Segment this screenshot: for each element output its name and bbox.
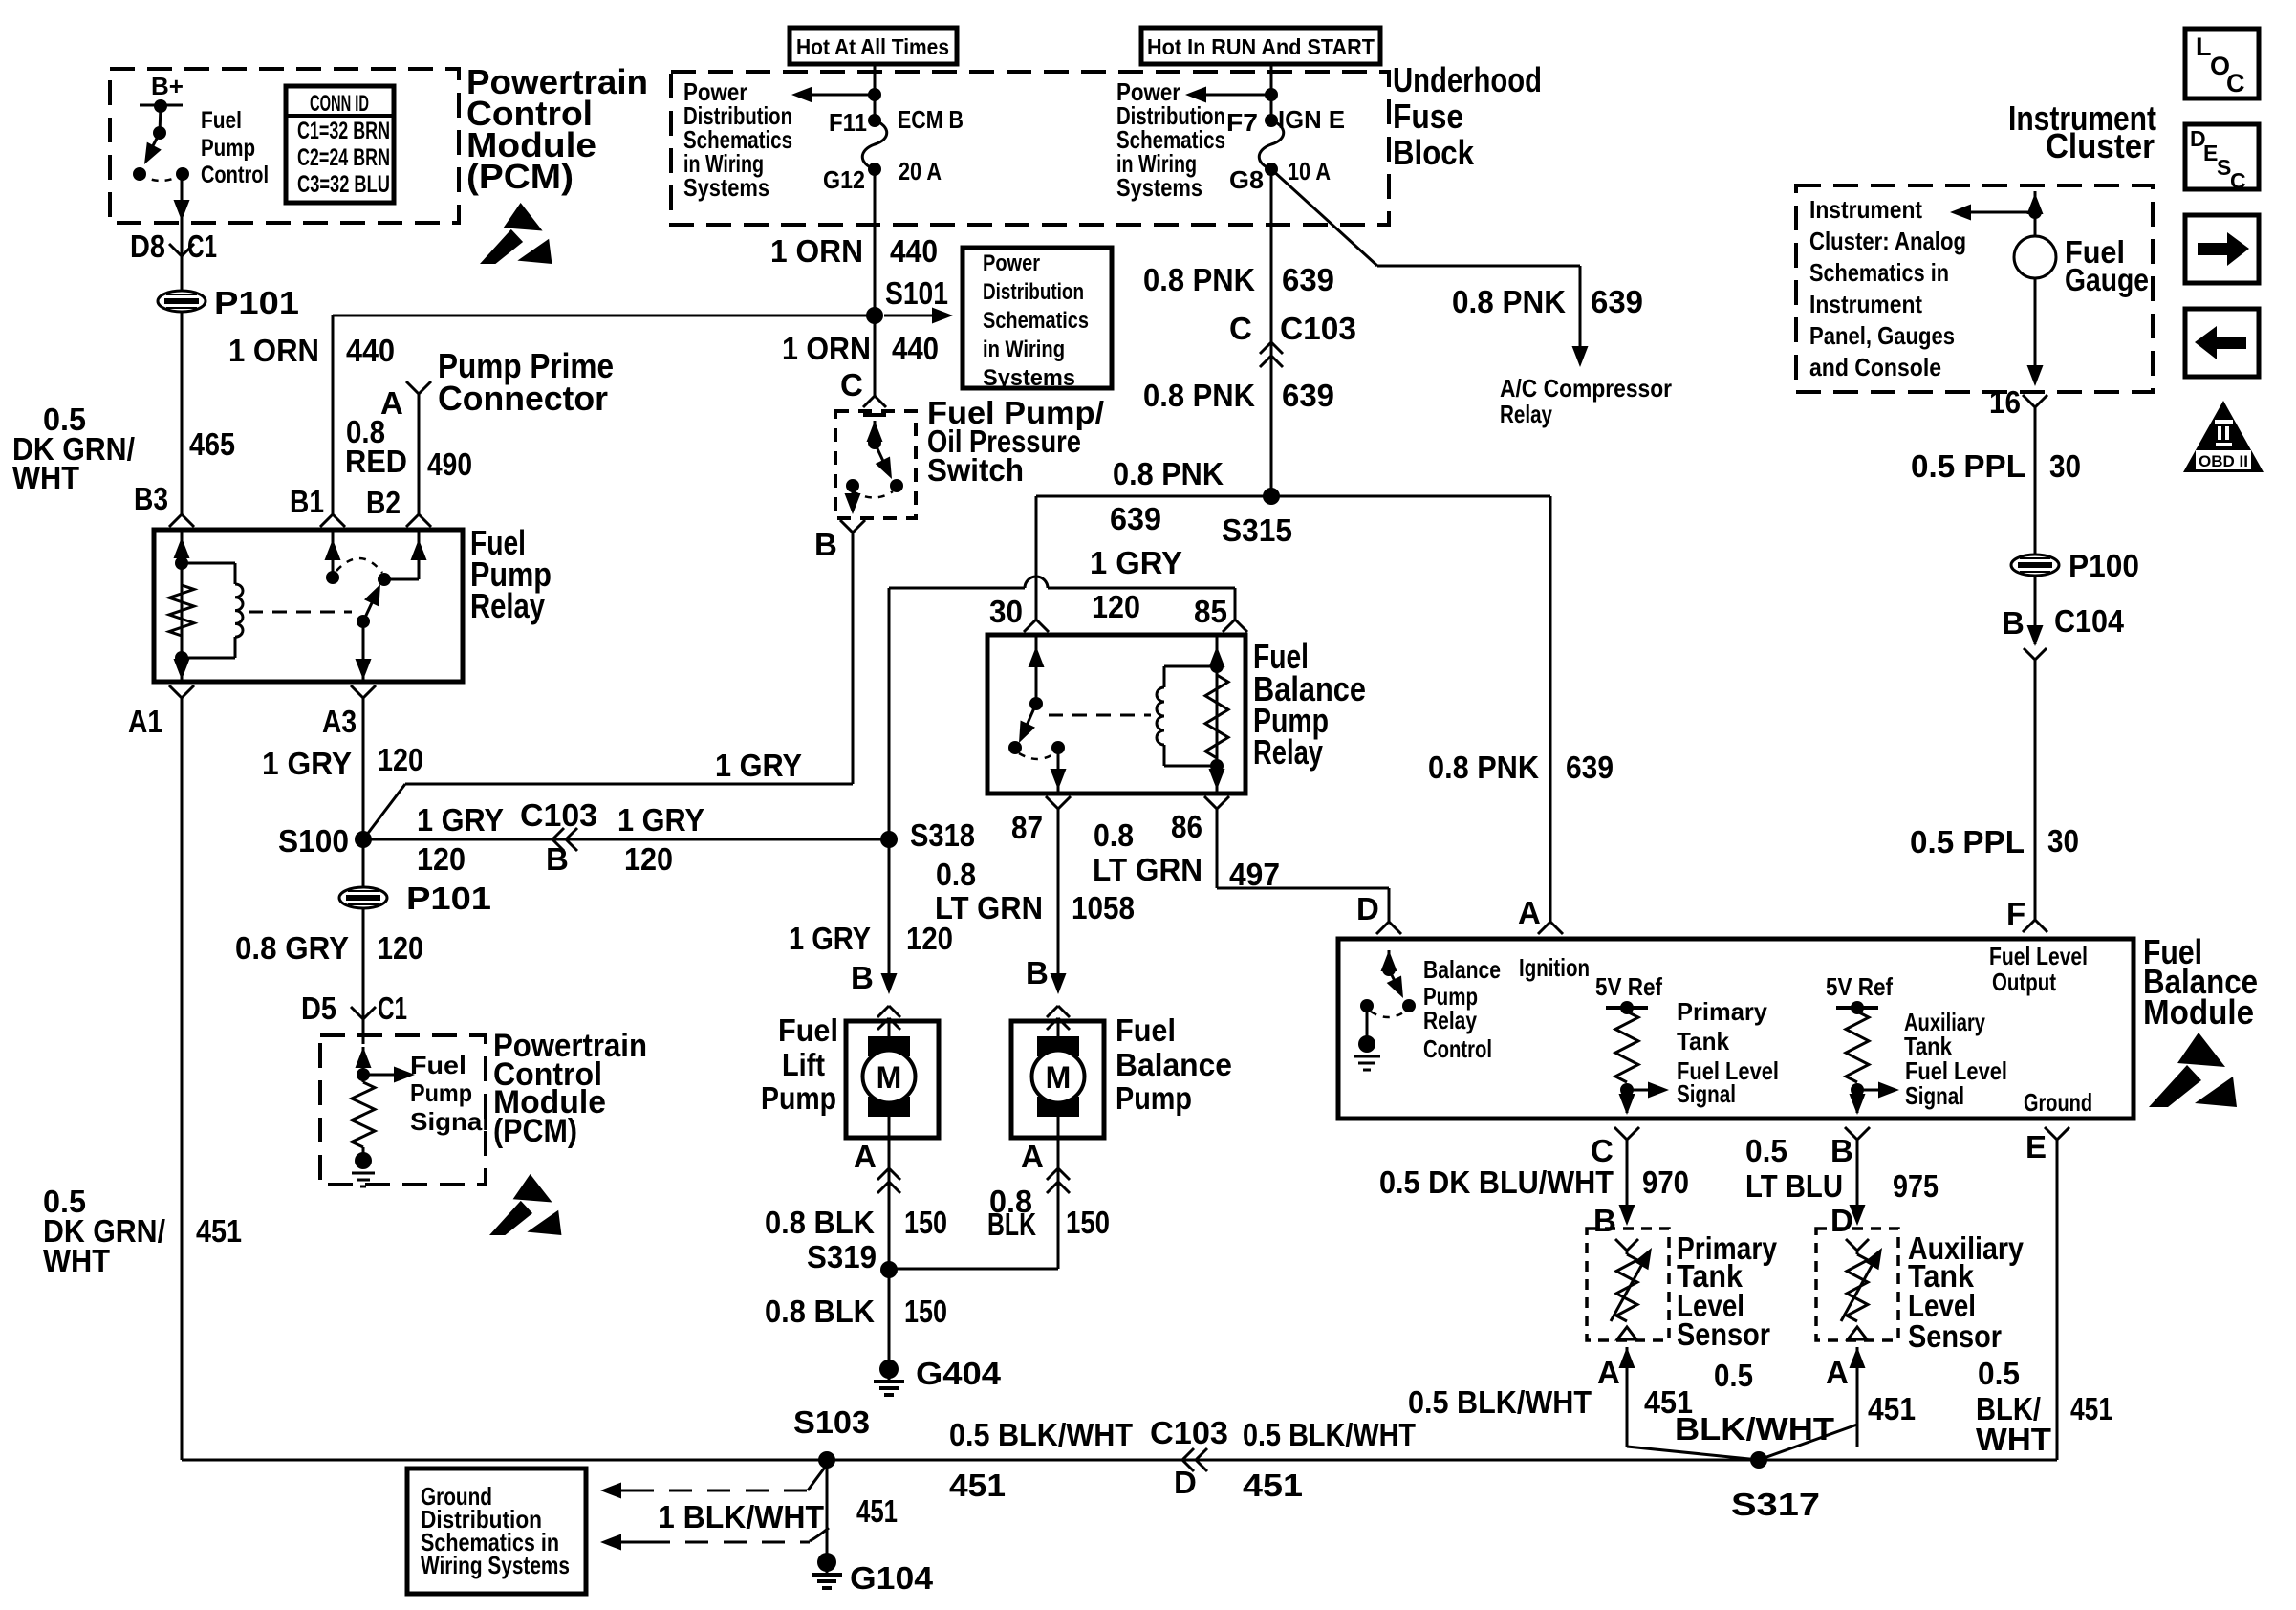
svg-text:0.5 DK BLU/WHT: 0.5 DK BLU/WHT	[1379, 1164, 1614, 1200]
svg-text:Output: Output	[1992, 968, 2056, 996]
svg-text:Fuel: Fuel	[1116, 1012, 1176, 1048]
svg-text:C: C	[2230, 168, 2246, 193]
svg-text:Distribution: Distribution	[983, 279, 1084, 305]
svg-text:A/C Compressor: A/C Compressor	[1500, 374, 1672, 402]
svg-text:WHT: WHT	[1976, 1422, 2051, 1457]
svg-text:BLK/WHT: BLK/WHT	[1675, 1411, 1834, 1447]
svg-text:5V Ref: 5V Ref	[1826, 972, 1893, 1001]
svg-text:120: 120	[378, 742, 423, 777]
svg-text:639: 639	[1566, 750, 1614, 785]
svg-text:16: 16	[1989, 384, 2021, 420]
svg-text:1 GRY: 1 GRY	[789, 921, 871, 956]
svg-text:0.5 PPL: 0.5 PPL	[1911, 448, 2025, 484]
svg-text:0.8 PNK: 0.8 PNK	[1143, 262, 1255, 297]
svg-text:B: B	[851, 960, 874, 995]
svg-text:Block: Block	[1393, 133, 1475, 172]
svg-text:A: A	[1021, 1139, 1044, 1174]
svg-text:451: 451	[949, 1468, 1006, 1503]
svg-text:Control: Control	[201, 162, 269, 188]
svg-text:0.5: 0.5	[1745, 1133, 1787, 1168]
svg-text:451: 451	[1868, 1391, 1916, 1426]
svg-text:451: 451	[856, 1493, 898, 1529]
svg-text:A: A	[854, 1139, 877, 1174]
svg-text:Panel, Gauges: Panel, Gauges	[1809, 321, 1955, 350]
svg-text:0.8: 0.8	[1094, 817, 1134, 853]
svg-text:B: B	[546, 841, 569, 877]
svg-text:465: 465	[189, 426, 235, 462]
svg-text:Pump: Pump	[201, 135, 255, 162]
svg-text:M: M	[1046, 1060, 1072, 1095]
svg-text:G12: G12	[823, 165, 865, 194]
svg-text:D5: D5	[301, 990, 336, 1026]
svg-text:Power: Power	[983, 250, 1040, 276]
svg-text:C1: C1	[187, 228, 217, 264]
svg-text:Balance: Balance	[1423, 955, 1501, 984]
svg-text:Instrument: Instrument	[1809, 290, 1922, 318]
svg-text:Balance: Balance	[1116, 1047, 1232, 1082]
svg-text:Cluster: Cluster	[2046, 126, 2155, 165]
svg-text:120: 120	[378, 930, 423, 966]
svg-text:1 GRY: 1 GRY	[617, 802, 704, 838]
svg-text:639: 639	[1282, 378, 1334, 413]
svg-text:86: 86	[1171, 809, 1202, 844]
svg-text:1058: 1058	[1072, 890, 1135, 925]
svg-text:Underhood: Underhood	[1393, 60, 1542, 99]
svg-text:(PCM): (PCM)	[466, 157, 574, 196]
svg-text:1 GRY: 1 GRY	[262, 746, 352, 781]
svg-text:C1=32 BRN: C1=32 BRN	[297, 118, 390, 144]
svg-text:Fuse: Fuse	[1393, 97, 1463, 136]
svg-text:0.8 BLK: 0.8 BLK	[765, 1294, 875, 1329]
svg-text:A3: A3	[322, 704, 357, 739]
svg-text:Signal: Signal	[410, 1107, 489, 1136]
svg-text:D: D	[1174, 1465, 1197, 1500]
svg-text:B2: B2	[366, 485, 401, 520]
svg-text:C103: C103	[1280, 311, 1356, 346]
svg-text:440: 440	[890, 233, 938, 269]
svg-text:in Wiring: in Wiring	[983, 337, 1065, 362]
svg-text:C104: C104	[2054, 603, 2125, 639]
svg-text:BLK: BLK	[987, 1207, 1036, 1242]
svg-text:0.8 PNK: 0.8 PNK	[1143, 378, 1255, 413]
svg-text:M: M	[877, 1060, 902, 1095]
svg-text:Fuel: Fuel	[778, 1012, 838, 1048]
svg-text:975: 975	[1893, 1168, 1939, 1204]
svg-text:B: B	[1830, 1133, 1853, 1168]
svg-text:Instrument: Instrument	[1809, 195, 1922, 224]
svg-text:D8: D8	[130, 228, 165, 264]
svg-text:F7: F7	[1226, 108, 1258, 137]
svg-text:Fuel Level: Fuel Level	[1989, 942, 2088, 970]
svg-text:Sensor: Sensor	[1908, 1318, 2002, 1354]
svg-text:S103: S103	[793, 1404, 870, 1440]
svg-text:1 GRY: 1 GRY	[715, 748, 802, 783]
svg-text:S101: S101	[885, 275, 948, 311]
svg-text:Gauge: Gauge	[2065, 262, 2149, 297]
svg-text:Hot At All Times: Hot At All Times	[796, 34, 949, 59]
svg-text:S315: S315	[1222, 512, 1292, 548]
svg-text:LT BLU: LT BLU	[1745, 1168, 1843, 1204]
svg-text:G104: G104	[850, 1560, 934, 1596]
svg-text:G404: G404	[916, 1356, 1002, 1391]
svg-text:120: 120	[417, 841, 466, 877]
svg-text:C: C	[2226, 69, 2245, 98]
svg-text:639: 639	[1591, 284, 1643, 319]
svg-text:0.8 PNK: 0.8 PNK	[1428, 750, 1539, 785]
svg-text:1 ORN: 1 ORN	[782, 331, 871, 366]
svg-text:Signal: Signal	[1905, 1081, 1964, 1110]
svg-text:150: 150	[904, 1205, 947, 1240]
svg-text:30: 30	[2047, 823, 2079, 859]
svg-text:Relay: Relay	[1500, 400, 1552, 428]
svg-text:Wiring Systems: Wiring Systems	[421, 1551, 570, 1579]
svg-text:C: C	[1229, 311, 1252, 346]
svg-text:E: E	[2025, 1129, 2047, 1164]
svg-text:0.8 PNK: 0.8 PNK	[1452, 284, 1566, 319]
svg-text:1 ORN: 1 ORN	[228, 333, 319, 368]
svg-text:Module: Module	[2143, 992, 2254, 1032]
svg-text:F11: F11	[829, 108, 867, 137]
svg-text:Tank: Tank	[1677, 1027, 1729, 1055]
svg-text:S100: S100	[278, 823, 349, 859]
svg-text:Fuel: Fuel	[410, 1051, 466, 1079]
svg-text:85: 85	[1194, 594, 1227, 629]
svg-text:Signal: Signal	[1677, 1079, 1736, 1108]
svg-text:Sensor: Sensor	[1677, 1316, 1770, 1352]
svg-text:Connector: Connector	[438, 379, 608, 418]
svg-text:0.5: 0.5	[1714, 1358, 1753, 1393]
svg-text:S318: S318	[910, 817, 975, 853]
svg-text:S319: S319	[807, 1239, 877, 1274]
svg-text:P100: P100	[2069, 548, 2139, 583]
svg-text:Schematics: Schematics	[983, 308, 1089, 334]
svg-text:0.8: 0.8	[936, 857, 976, 892]
svg-text:120: 120	[906, 921, 953, 956]
svg-text:B: B	[1593, 1203, 1616, 1238]
svg-text:Pump: Pump	[761, 1080, 836, 1116]
svg-text:C103: C103	[520, 797, 597, 833]
svg-text:10 A: 10 A	[1288, 157, 1331, 185]
svg-text:A1: A1	[128, 704, 162, 739]
svg-text:970: 970	[1642, 1164, 1689, 1200]
svg-text:Lift: Lift	[782, 1047, 825, 1082]
svg-text:Fuel: Fuel	[201, 107, 242, 134]
svg-text:Relay: Relay	[1423, 1006, 1477, 1034]
svg-text:B: B	[2002, 605, 2025, 641]
svg-text:Ground: Ground	[2024, 1088, 2092, 1117]
svg-text:D: D	[1830, 1203, 1853, 1238]
svg-text:B+: B+	[151, 72, 184, 100]
svg-text:Pump: Pump	[410, 1078, 472, 1107]
svg-text:1 BLK/WHT: 1 BLK/WHT	[658, 1499, 824, 1534]
svg-text:440: 440	[346, 333, 395, 368]
svg-text:and Console: and Console	[1809, 353, 1941, 381]
svg-text:IGN E: IGN E	[1278, 105, 1345, 134]
svg-text:Systems: Systems	[983, 365, 1075, 391]
svg-text:A: A	[1826, 1355, 1849, 1390]
svg-text:Pump: Pump	[1116, 1080, 1192, 1116]
svg-text:G8: G8	[1229, 165, 1264, 194]
svg-text:WHT: WHT	[43, 1243, 110, 1278]
svg-text:B1: B1	[290, 484, 324, 519]
svg-text:Hot In RUN And START: Hot In RUN And START	[1147, 34, 1375, 59]
svg-text:0.8 GRY: 0.8 GRY	[235, 930, 349, 966]
svg-text:30: 30	[2049, 448, 2081, 484]
svg-text:RED: RED	[345, 444, 407, 479]
svg-text:120: 120	[1092, 589, 1140, 624]
svg-text:Relay: Relay	[1253, 732, 1323, 772]
svg-text:639: 639	[1282, 262, 1334, 297]
svg-text:120: 120	[624, 841, 673, 877]
svg-text:Relay: Relay	[470, 586, 545, 625]
svg-text:0.5: 0.5	[1978, 1356, 2020, 1391]
svg-text:CONN ID: CONN ID	[310, 91, 369, 117]
svg-text:D: D	[1356, 891, 1379, 926]
svg-text:451: 451	[1243, 1468, 1303, 1503]
svg-text:Ignition: Ignition	[1519, 953, 1590, 982]
svg-text:C: C	[1591, 1133, 1614, 1168]
svg-text:Switch: Switch	[927, 452, 1024, 488]
svg-text:LT GRN: LT GRN	[1093, 852, 1202, 887]
svg-text:C3=32 BLU: C3=32 BLU	[297, 171, 390, 198]
svg-text:B: B	[814, 527, 837, 562]
svg-text:0.5 BLK/WHT: 0.5 BLK/WHT	[1243, 1417, 1416, 1452]
svg-text:ECM B: ECM B	[898, 105, 964, 134]
svg-text:C2=24 BRN: C2=24 BRN	[297, 144, 390, 171]
svg-text:P101: P101	[406, 881, 491, 916]
svg-text:490: 490	[427, 446, 472, 482]
svg-text:(PCM): (PCM)	[493, 1113, 577, 1149]
svg-text:Cluster: Analog: Cluster: Analog	[1809, 227, 1966, 255]
svg-text:150: 150	[1066, 1205, 1110, 1240]
svg-text:Control: Control	[1423, 1034, 1492, 1063]
svg-text:Schematics in: Schematics in	[1809, 258, 1949, 287]
svg-text:30: 30	[989, 594, 1023, 629]
svg-text:C: C	[840, 367, 863, 402]
svg-text:Systems: Systems	[1116, 173, 1202, 202]
svg-text:0.5 BLK/WHT: 0.5 BLK/WHT	[1408, 1384, 1592, 1420]
svg-text:Systems: Systems	[683, 173, 769, 202]
svg-text:0.5 BLK/WHT: 0.5 BLK/WHT	[949, 1417, 1133, 1452]
svg-text:451: 451	[196, 1213, 242, 1249]
svg-text:1 ORN: 1 ORN	[770, 233, 863, 269]
svg-text:497: 497	[1229, 857, 1280, 892]
svg-text:OBD II: OBD II	[2199, 452, 2248, 470]
svg-text:451: 451	[2070, 1391, 2112, 1426]
svg-text:0.8 BLK: 0.8 BLK	[765, 1205, 875, 1240]
svg-text:S317: S317	[1731, 1487, 1820, 1522]
svg-text:P101: P101	[214, 285, 299, 320]
svg-text:B: B	[1026, 955, 1049, 990]
svg-text:A: A	[1597, 1355, 1620, 1390]
svg-text:440: 440	[892, 331, 939, 366]
svg-text:20 A: 20 A	[899, 157, 942, 185]
svg-text:Primary: Primary	[1677, 997, 1768, 1026]
svg-text:0.5 PPL: 0.5 PPL	[1910, 824, 2025, 859]
svg-text:WHT: WHT	[12, 460, 79, 495]
svg-text:5V Ref: 5V Ref	[1595, 972, 1662, 1001]
svg-text:C1: C1	[378, 990, 407, 1026]
svg-text:F: F	[2006, 896, 2025, 931]
svg-text:150: 150	[904, 1294, 947, 1329]
svg-text:1 GRY: 1 GRY	[417, 802, 504, 838]
svg-text:639: 639	[1110, 501, 1161, 536]
svg-text:1 GRY: 1 GRY	[1090, 545, 1182, 580]
svg-text:87: 87	[1011, 810, 1043, 845]
svg-text:0.8 PNK: 0.8 PNK	[1113, 456, 1224, 491]
svg-text:A: A	[1518, 895, 1541, 930]
svg-text:B3: B3	[134, 481, 168, 516]
svg-text:C103: C103	[1150, 1415, 1228, 1450]
